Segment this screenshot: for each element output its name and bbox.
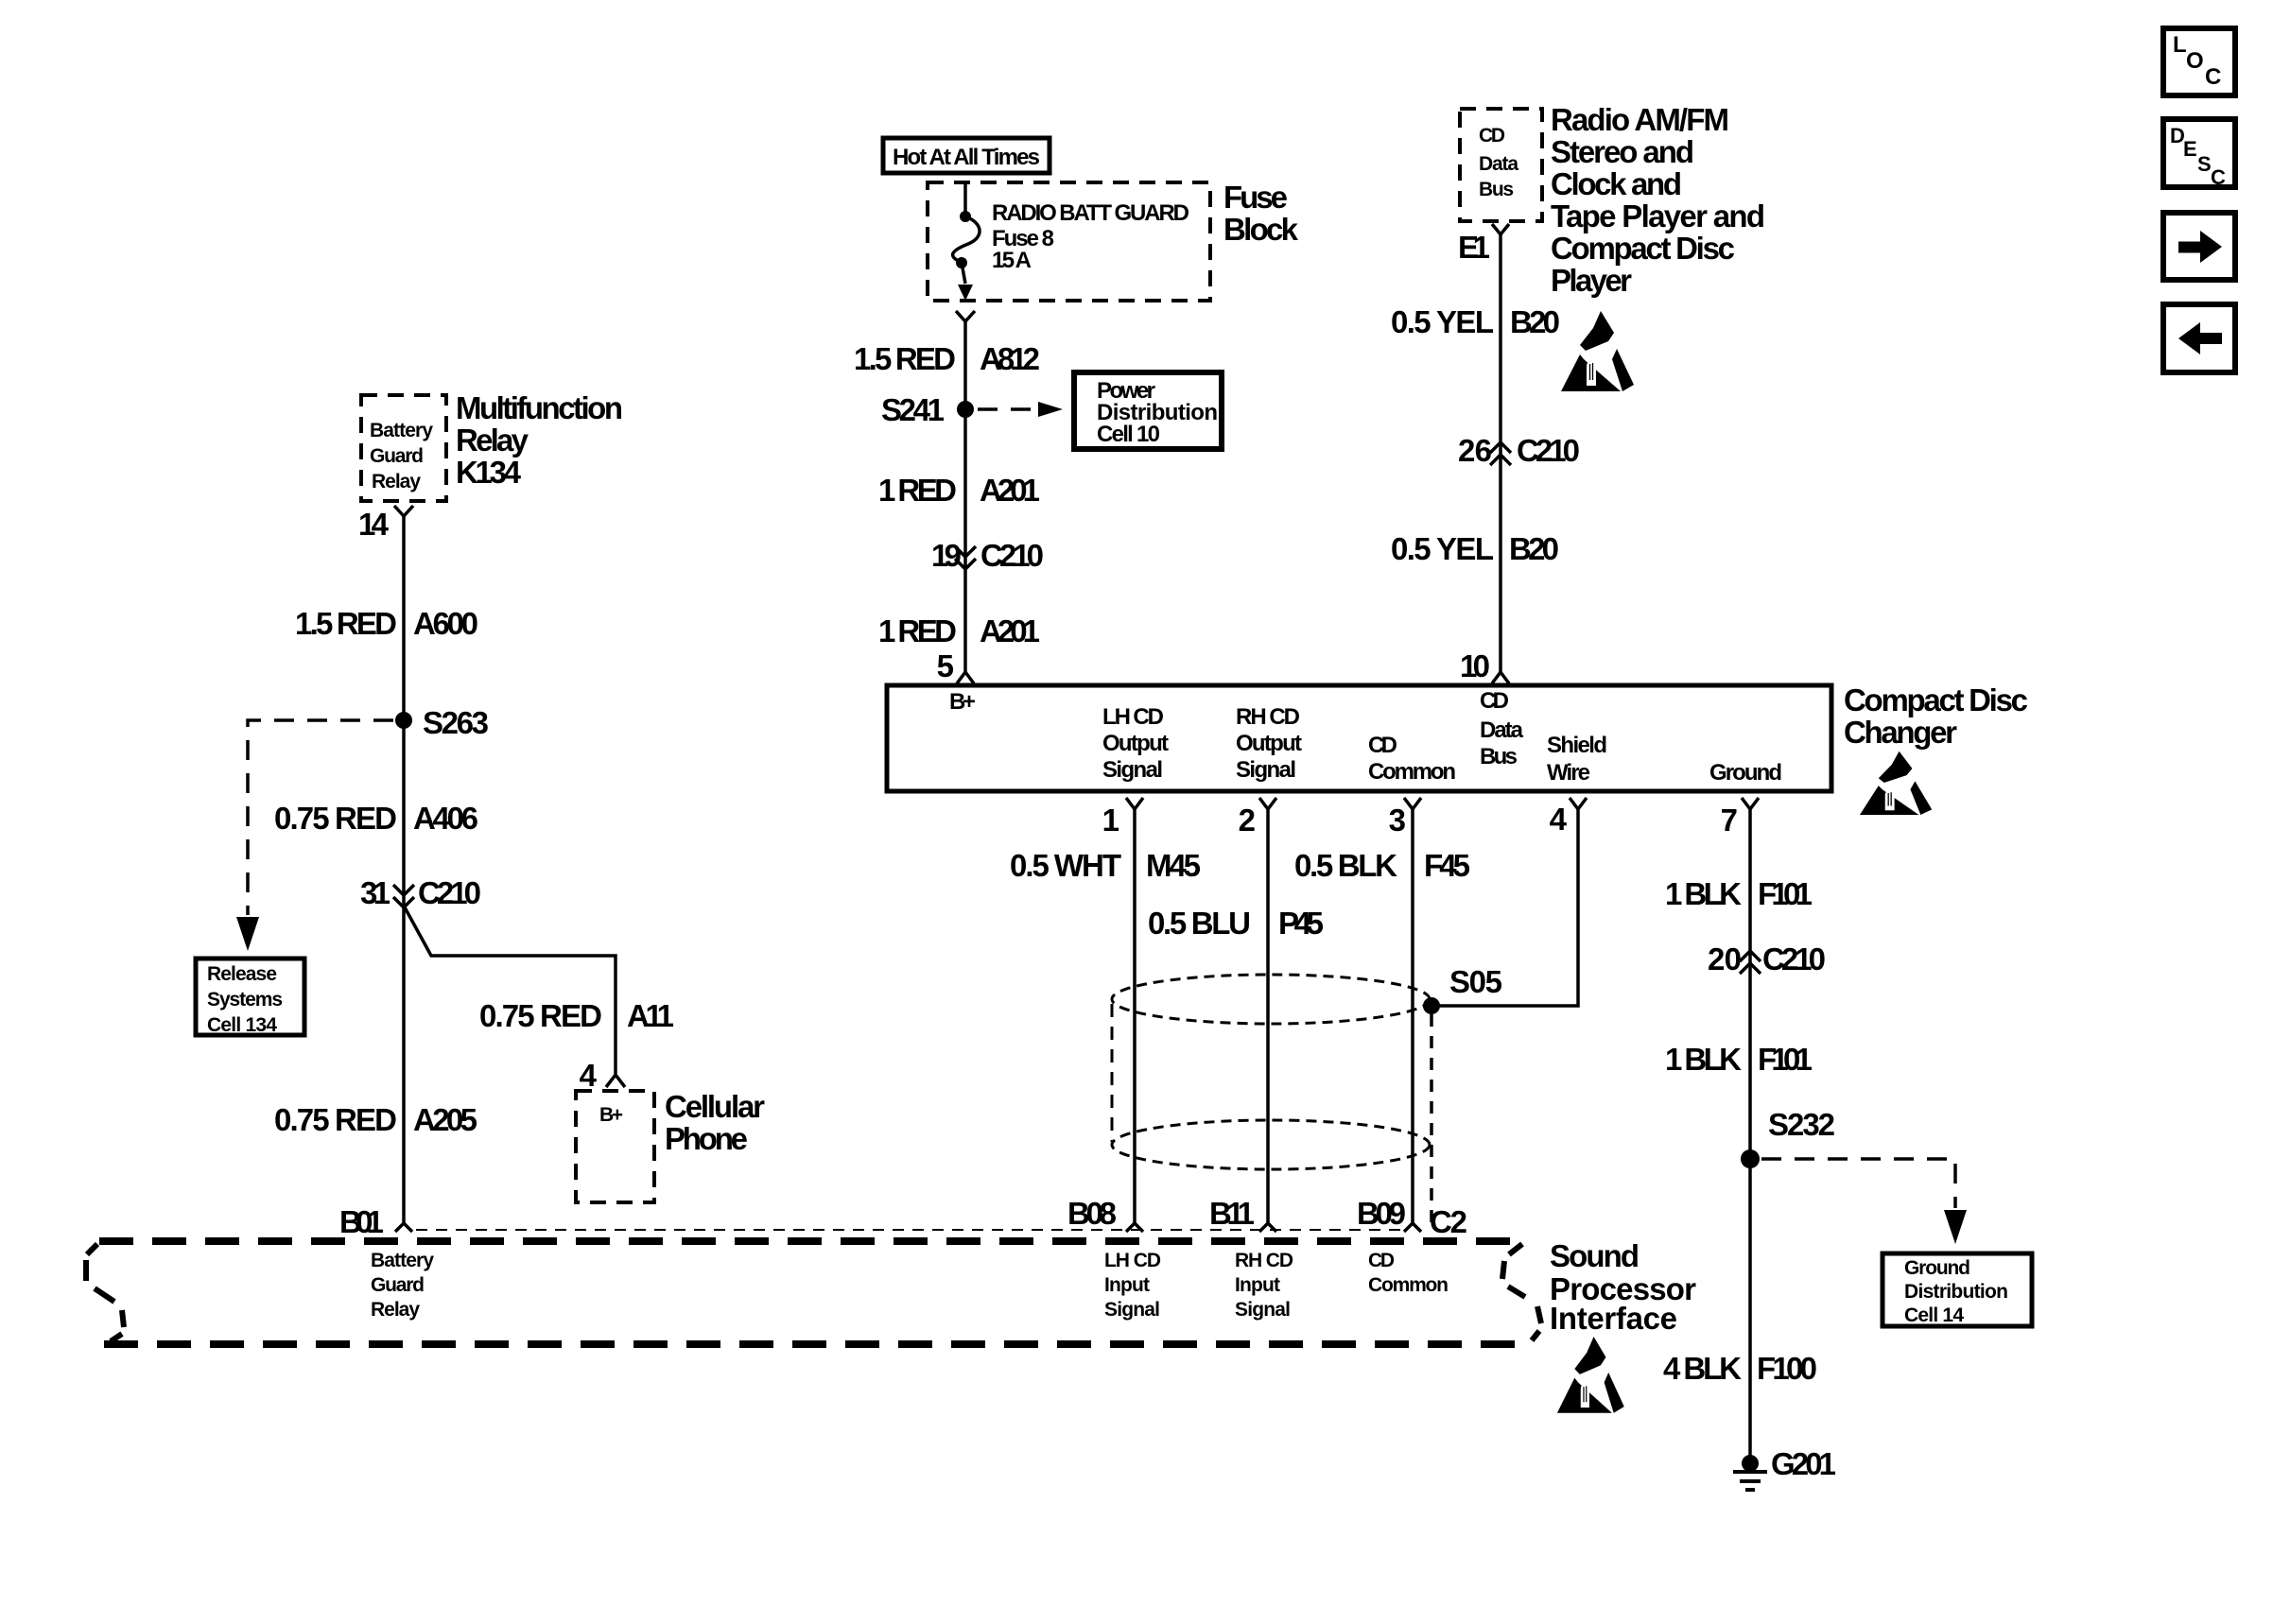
svg-text:S232: S232 bbox=[1768, 1107, 1835, 1142]
label Multifunction Relay K134 bbox=[456, 390, 623, 490]
value label 0.75 RED A11 bbox=[479, 998, 674, 1033]
svg-text:Relay: Relay bbox=[371, 1299, 420, 1321]
svg-text:Interface: Interface bbox=[1550, 1301, 1677, 1336]
svg-text:20: 20 bbox=[1708, 942, 1742, 976]
svg-text:Fuse: Fuse bbox=[1223, 180, 1288, 215]
svg-text:Shield: Shield bbox=[1547, 733, 1607, 758]
svg-text:Ground: Ground bbox=[1904, 1257, 1970, 1279]
svg-text:Clock and: Clock and bbox=[1551, 166, 1682, 201]
svg-text:1: 1 bbox=[1102, 803, 1119, 838]
label Sound Processor Interface bbox=[1550, 1238, 1696, 1336]
svg-text:0.5 YEL: 0.5 YEL bbox=[1391, 531, 1494, 566]
svg-text:Output: Output bbox=[1236, 731, 1302, 756]
connector pin 14 (Y) bbox=[394, 506, 413, 516]
svg-text:1 RED: 1 RED bbox=[878, 613, 957, 648]
svg-text:E1: E1 bbox=[1458, 230, 1490, 265]
next arrow button bbox=[2163, 213, 2235, 280]
fuse RADIO BATT GUARD Fuse 8 15 A bbox=[953, 183, 1189, 301]
wire shield (pin 4 to S05) bbox=[1431, 809, 1578, 1006]
splice S05 bbox=[1423, 997, 1440, 1014]
svg-text:Release: Release bbox=[207, 963, 277, 985]
svg-text:B01: B01 bbox=[339, 1204, 384, 1239]
svg-text:Input: Input bbox=[1104, 1274, 1150, 1296]
svg-text:C210: C210 bbox=[1517, 433, 1580, 468]
splice S232 bbox=[1741, 1149, 1760, 1168]
svg-text:B08: B08 bbox=[1067, 1196, 1117, 1231]
svg-text:A205: A205 bbox=[413, 1102, 477, 1137]
svg-text:Signal: Signal bbox=[1236, 757, 1296, 783]
label Cellular Phone bbox=[665, 1089, 765, 1156]
label Fuse Block bbox=[1223, 180, 1299, 247]
svg-text:S: S bbox=[2197, 152, 2212, 176]
value label 1.5 RED A600 bbox=[295, 606, 478, 641]
svg-text:A600: A600 bbox=[413, 606, 478, 641]
DESC button bbox=[2163, 119, 2235, 189]
value label 1 RED A201 (lower) bbox=[878, 613, 1040, 648]
svg-text:Phone: Phone bbox=[665, 1121, 748, 1156]
svg-text:F100: F100 bbox=[1757, 1351, 1817, 1386]
connector pin 1 (Y) bbox=[1126, 798, 1143, 809]
label Radio AM/FM Stereo ... bbox=[1551, 102, 1765, 298]
svg-text:RH CD: RH CD bbox=[1236, 704, 1300, 730]
svg-text:A201: A201 bbox=[980, 473, 1040, 508]
svg-text:F101: F101 bbox=[1758, 876, 1813, 911]
svg-text:Bus: Bus bbox=[1480, 744, 1518, 769]
svg-text:Data: Data bbox=[1479, 153, 1518, 175]
svg-text:S241: S241 bbox=[881, 392, 945, 427]
dashed reference arrow to Power Distribution bbox=[978, 407, 1036, 411]
ESD symbol (radio) bbox=[1561, 311, 1634, 391]
svg-text:C210: C210 bbox=[1762, 942, 1826, 976]
svg-text:0.5 YEL: 0.5 YEL bbox=[1391, 304, 1494, 339]
connector 31 C210 (chevrons down) bbox=[360, 875, 481, 910]
connector 19 C210 (chevrons down) bbox=[931, 538, 1044, 573]
connector B01 (Y into SPI) bbox=[395, 1223, 412, 1232]
wire M45 (LH CD output) bbox=[1133, 809, 1136, 1223]
svg-text:Common: Common bbox=[1368, 1274, 1449, 1296]
splice S241 bbox=[957, 401, 974, 418]
svg-text:Sound: Sound bbox=[1550, 1238, 1640, 1273]
connector pin 4 (male) bbox=[606, 1075, 625, 1087]
svg-text:Stereo and: Stereo and bbox=[1551, 134, 1694, 169]
svg-text:O: O bbox=[2186, 48, 2204, 74]
svg-text:B+: B+ bbox=[599, 1104, 623, 1126]
cellular phone box (dashed) bbox=[576, 1091, 654, 1202]
svg-text:Ground: Ground bbox=[1709, 760, 1782, 786]
svg-text:M45: M45 bbox=[1146, 848, 1201, 883]
svg-text:B+: B+ bbox=[949, 689, 976, 715]
value label 0.5 YEL B20 bbox=[1391, 304, 1560, 339]
svg-text:Bus: Bus bbox=[1479, 179, 1514, 200]
wire F45 (CD common) bbox=[1411, 809, 1414, 1223]
fuse block box (dashed) bbox=[928, 182, 1210, 301]
value label 1 BLK F101 (lower) bbox=[1665, 1042, 1813, 1077]
svg-text:Data: Data bbox=[1480, 717, 1524, 743]
svg-text:Distribution: Distribution bbox=[1904, 1281, 2008, 1303]
svg-text:Cell 134: Cell 134 bbox=[207, 1014, 277, 1036]
value label 0.5 BLU P45 bbox=[1148, 906, 1324, 941]
svg-text:Changer: Changer bbox=[1844, 715, 1957, 750]
svg-text:Relay: Relay bbox=[456, 423, 529, 458]
svg-text:C2: C2 bbox=[1430, 1204, 1467, 1239]
svg-text:Output: Output bbox=[1102, 731, 1169, 756]
splice S263 bbox=[395, 712, 412, 729]
svg-text:A11: A11 bbox=[627, 998, 674, 1033]
svg-text:Cell 10: Cell 10 bbox=[1097, 422, 1160, 447]
svg-text:Signal: Signal bbox=[1104, 1299, 1160, 1321]
Release Systems Cell 134 box bbox=[196, 959, 304, 1036]
ESD symbol (sound processor) bbox=[1557, 1337, 1624, 1413]
svg-text:1 BLK: 1 BLK bbox=[1665, 1042, 1742, 1077]
connector below fuse block (Y) bbox=[956, 311, 975, 321]
wire A812/A201 vertical bbox=[963, 321, 967, 672]
ESD symbol (CD changer) bbox=[1860, 752, 1932, 815]
dashed reference arrow to Release Systems bbox=[248, 720, 393, 915]
svg-text:1.5 RED: 1.5 RED bbox=[854, 341, 956, 376]
svg-text:Battery: Battery bbox=[370, 420, 433, 441]
svg-text:B09: B09 bbox=[1357, 1196, 1406, 1231]
connector B09 (Y into SPI) bbox=[1404, 1223, 1421, 1232]
svg-text:F45: F45 bbox=[1424, 848, 1470, 883]
C2 harness line (thin dashed) bbox=[416, 1229, 1402, 1231]
svg-text:31: 31 bbox=[360, 875, 390, 910]
svg-text:C210: C210 bbox=[418, 875, 481, 910]
svg-text:7: 7 bbox=[1721, 803, 1738, 838]
connector B08 (Y into SPI) bbox=[1126, 1223, 1143, 1232]
svg-text:0.5 BLU: 0.5 BLU bbox=[1148, 906, 1251, 941]
wire branch to cellular phone (diagonal + horizontal + vertical A11) bbox=[404, 906, 616, 1074]
relay K134 box (Battery Guard Relay, dashed) bbox=[361, 395, 446, 501]
connector pin 3 (Y) bbox=[1404, 798, 1421, 809]
svg-text:RH CD: RH CD bbox=[1235, 1250, 1293, 1271]
svg-text:C210: C210 bbox=[980, 538, 1044, 573]
svg-text:Signal: Signal bbox=[1235, 1299, 1291, 1321]
svg-text:0.5 WHT: 0.5 WHT bbox=[1010, 848, 1121, 883]
shield ellipse top (dashed) bbox=[1112, 975, 1430, 1024]
svg-text:4 BLK: 4 BLK bbox=[1663, 1351, 1742, 1386]
CD Data Bus box (dashed) bbox=[1460, 109, 1542, 221]
value label 0.5 BLK F45 bbox=[1294, 848, 1470, 883]
svg-text:B20: B20 bbox=[1509, 531, 1559, 566]
LOC button bbox=[2163, 28, 2235, 95]
label Compact Disc Changer bbox=[1844, 682, 2028, 750]
svg-text:Cell 14: Cell 14 bbox=[1904, 1304, 1964, 1326]
connector pin 7 (Y) bbox=[1742, 798, 1759, 809]
svg-text:Relay: Relay bbox=[372, 471, 421, 492]
svg-text:10: 10 bbox=[1460, 648, 1490, 683]
value label 1 RED A201 bbox=[878, 473, 1040, 508]
svg-text:15 A: 15 A bbox=[992, 248, 1032, 273]
svg-text:0.75 RED: 0.75 RED bbox=[274, 801, 397, 836]
svg-text:Wire: Wire bbox=[1547, 760, 1590, 786]
Ground Distribution Cell 14 box bbox=[1883, 1253, 2032, 1326]
value label 0.75 RED A406 bbox=[274, 801, 478, 836]
svg-text:3: 3 bbox=[1389, 803, 1406, 838]
svg-text:Systems: Systems bbox=[207, 989, 283, 1011]
svg-text:P45: P45 bbox=[1278, 906, 1324, 941]
svg-text:LH CD: LH CD bbox=[1104, 1250, 1161, 1271]
svg-text:G201: G201 bbox=[1771, 1446, 1836, 1481]
svg-text:A406: A406 bbox=[413, 801, 478, 836]
connector pin 2 (Y) bbox=[1259, 798, 1276, 809]
wire P45 (RH CD output) bbox=[1266, 809, 1270, 1223]
svg-text:E: E bbox=[2183, 137, 2197, 161]
svg-text:CD: CD bbox=[1479, 125, 1505, 147]
Hot At All Times box bbox=[883, 138, 1050, 173]
svg-text:14: 14 bbox=[358, 507, 390, 542]
svg-text:C: C bbox=[2211, 165, 2226, 189]
svg-text:0.75 RED: 0.75 RED bbox=[274, 1102, 397, 1137]
svg-text:Battery: Battery bbox=[371, 1250, 434, 1271]
svg-text:1.5 RED: 1.5 RED bbox=[295, 606, 397, 641]
svg-text:Compact Disc: Compact Disc bbox=[1844, 682, 2028, 717]
shield ellipse bottom (dashed) bbox=[1112, 1120, 1430, 1169]
svg-text:Tape Player and: Tape Player and bbox=[1551, 199, 1765, 233]
svg-text:A201: A201 bbox=[980, 613, 1040, 648]
connector pin 10 (Y into CDC) bbox=[1492, 672, 1509, 683]
svg-text:1 BLK: 1 BLK bbox=[1665, 876, 1742, 911]
svg-text:Multifunction: Multifunction bbox=[456, 390, 623, 425]
svg-text:F101: F101 bbox=[1758, 1042, 1813, 1077]
ground G201 bbox=[1733, 1446, 1836, 1490]
svg-text:A812: A812 bbox=[980, 341, 1040, 376]
value label 0.5 WHT M45 bbox=[1010, 848, 1201, 883]
svg-text:L: L bbox=[2173, 32, 2187, 58]
value label 1 BLK F101 bbox=[1665, 876, 1813, 911]
svg-text:Hot At All Times: Hot At All Times bbox=[893, 145, 1040, 170]
svg-text:Signal: Signal bbox=[1102, 757, 1163, 783]
wire F101/F100 ground bbox=[1748, 809, 1752, 1458]
connector pin 4 (Y) bbox=[1570, 798, 1587, 809]
svg-text:S263: S263 bbox=[423, 705, 489, 740]
svg-text:Guard: Guard bbox=[370, 445, 424, 467]
svg-text:4: 4 bbox=[1550, 802, 1568, 837]
svg-text:CD: CD bbox=[1480, 688, 1509, 714]
svg-text:5: 5 bbox=[937, 648, 954, 683]
wire A600/A406/A205 vertical bbox=[402, 516, 406, 1223]
prev arrow button bbox=[2163, 304, 2235, 372]
value label 0.75 RED A205 bbox=[274, 1102, 477, 1137]
svg-text:CD: CD bbox=[1368, 733, 1397, 758]
svg-text:2: 2 bbox=[1239, 803, 1256, 838]
connector 26 C210 (chevrons up) bbox=[1458, 433, 1580, 468]
svg-text:19: 19 bbox=[931, 538, 962, 573]
svg-text:B11: B11 bbox=[1209, 1196, 1255, 1231]
svg-text:CD: CD bbox=[1368, 1250, 1395, 1271]
svg-text:4: 4 bbox=[580, 1058, 598, 1093]
svg-text:Radio AM/FM: Radio AM/FM bbox=[1551, 102, 1729, 137]
svg-text:Block: Block bbox=[1223, 212, 1299, 247]
connector pin 5 (Y into CDC) bbox=[957, 672, 974, 683]
svg-text:Input: Input bbox=[1235, 1274, 1280, 1296]
svg-text:B20: B20 bbox=[1510, 304, 1560, 339]
value label 4 BLK F100 bbox=[1663, 1351, 1817, 1386]
value label 0.5 YEL B20 (lower) bbox=[1391, 531, 1559, 566]
svg-text:Common: Common bbox=[1368, 759, 1456, 785]
svg-text:Guard: Guard bbox=[371, 1274, 425, 1296]
Power Distribution Cell 10 box bbox=[1074, 372, 1222, 449]
connector B11 (Y into SPI) bbox=[1259, 1223, 1276, 1232]
svg-text:Compact Disc: Compact Disc bbox=[1551, 231, 1735, 266]
svg-text:0.75 RED: 0.75 RED bbox=[479, 998, 602, 1033]
shield drain dashed wire bbox=[1430, 1014, 1433, 1229]
svg-text:K134: K134 bbox=[456, 455, 522, 490]
svg-text:Player: Player bbox=[1551, 263, 1632, 298]
wire B20 vertical bbox=[1499, 234, 1502, 672]
svg-text:Cellular: Cellular bbox=[665, 1089, 765, 1124]
connector pin E1 (Y) bbox=[1492, 224, 1509, 234]
shield side (dashed) bbox=[1111, 1004, 1114, 1142]
svg-text:S05: S05 bbox=[1449, 964, 1502, 999]
dashed reference arrow to Ground Distribution bbox=[1761, 1159, 1955, 1208]
svg-text:RADIO BATT GUARD: RADIO BATT GUARD bbox=[992, 200, 1189, 226]
svg-text:1 RED: 1 RED bbox=[878, 473, 957, 508]
svg-text:C: C bbox=[2205, 64, 2221, 90]
svg-text:0.5 BLK: 0.5 BLK bbox=[1294, 848, 1397, 883]
value label 1.5 RED A812 bbox=[854, 341, 1040, 376]
connector 20 C210 (chevrons up) bbox=[1708, 942, 1826, 976]
svg-text:26: 26 bbox=[1458, 433, 1492, 468]
svg-text:LH CD: LH CD bbox=[1102, 704, 1164, 730]
